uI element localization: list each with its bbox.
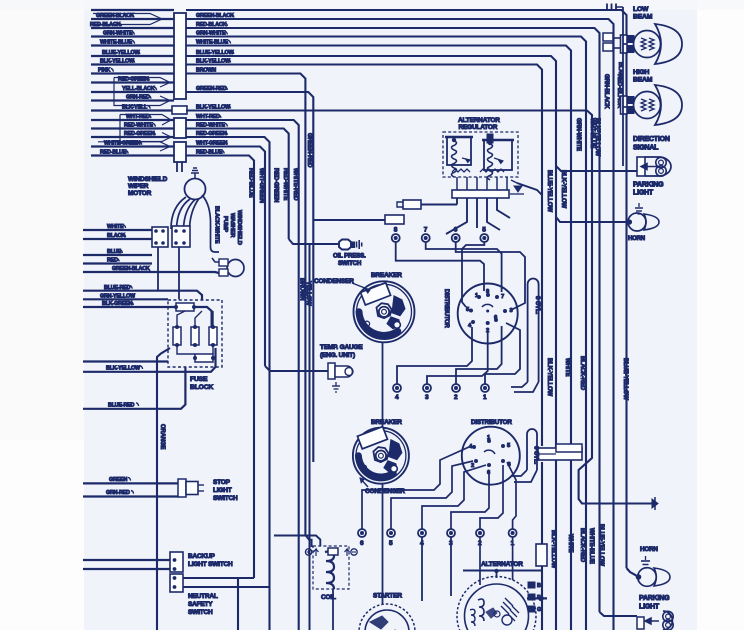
svg-text:3: 3 <box>425 394 429 401</box>
svg-text:RED-GREEN: RED-GREEN <box>124 131 155 137</box>
svg-text:HIGH: HIGH <box>633 69 649 76</box>
svg-text:CONDENSER: CONDENSER <box>365 488 405 495</box>
svg-text:HORN: HORN <box>628 236 645 242</box>
svg-text:RED-WHITE: RED-WHITE <box>282 168 288 200</box>
svg-text:6: 6 <box>454 227 458 234</box>
svg-text:BLOCK: BLOCK <box>190 384 213 391</box>
svg-text:BLK-YELLOW: BLK-YELLOW <box>550 530 556 569</box>
svg-text:PARKING: PARKING <box>633 182 664 189</box>
svg-text:7: 7 <box>501 294 504 300</box>
svg-text:WHITE: WHITE <box>107 224 124 230</box>
svg-text:WHITE-BLUE: WHITE-BLUE <box>100 40 132 46</box>
svg-text:G: G <box>537 607 541 613</box>
svg-text:BLACK-RED: BLACK-RED <box>579 528 585 563</box>
svg-text:YELL-BLACK: YELL-BLACK <box>122 86 155 92</box>
svg-text:1: 1 <box>483 394 487 401</box>
svg-text:NEUTRAL: NEUTRAL <box>188 593 218 600</box>
svg-text:LOW: LOW <box>633 6 649 13</box>
svg-text:BLK-YELLOW: BLK-YELLOW <box>100 59 135 65</box>
svg-text:BREAKER: BREAKER <box>371 419 402 426</box>
svg-text:LIGHT: LIGHT <box>213 487 232 494</box>
svg-text:8 CYL.: 8 CYL. <box>534 296 541 315</box>
svg-text:BLACK-RED: BLACK-RED <box>579 356 585 391</box>
svg-text:BLUE-YELLOW: BLUE-YELLOW <box>598 524 604 566</box>
svg-text:BACKUP: BACKUP <box>188 553 215 560</box>
svg-text:BLK-YELLOW: BLK-YELLOW <box>106 365 141 371</box>
svg-text:BLACK-WHITE: BLACK-WHITE <box>214 206 220 244</box>
svg-text:MOTOR: MOTOR <box>128 190 152 197</box>
svg-text:BLK-YELLOW: BLK-YELLOW <box>560 170 566 209</box>
svg-text:(ENG. UNIT): (ENG. UNIT) <box>320 352 355 359</box>
svg-text:ORANGE: ORANGE <box>159 424 165 449</box>
svg-text:WASHER: WASHER <box>229 213 235 238</box>
svg-text:RED-GREEN: RED-GREEN <box>273 168 279 202</box>
svg-text:BLUE-YELLOW: BLUE-YELLOW <box>102 50 140 56</box>
svg-text:OIL PRESS.: OIL PRESS. <box>333 253 366 260</box>
svg-text:WHT-GREEN: WHT-GREEN <box>258 168 264 203</box>
svg-text:7: 7 <box>424 227 428 234</box>
svg-text:YELLOW: YELLOW <box>305 281 311 306</box>
svg-text:GRN-RED: GRN-RED <box>126 95 150 101</box>
svg-text:BREAKER: BREAKER <box>371 272 402 279</box>
svg-text:SAFETY: SAFETY <box>188 601 213 608</box>
svg-text:SWITCH: SWITCH <box>338 260 362 267</box>
svg-text:6 CYL.: 6 CYL. <box>533 446 540 465</box>
svg-text:STARTER: STARTER <box>373 593 402 600</box>
svg-text:BLK-GREEN: BLK-GREEN <box>102 301 133 307</box>
svg-text:BLUE-RED: BLUE-RED <box>104 285 131 291</box>
svg-text:BLACK: BLACK <box>617 62 623 81</box>
svg-text:5: 5 <box>389 540 393 547</box>
svg-text:GRN-BLACK: GRN-BLACK <box>603 74 609 109</box>
svg-text:WINDSHIELD: WINDSHIELD <box>236 210 242 245</box>
svg-text:SWITCH: SWITCH <box>188 609 213 616</box>
svg-text:GREEN-RED: GREEN-RED <box>306 133 312 168</box>
svg-text:B: B <box>537 583 541 589</box>
svg-text:FUSE: FUSE <box>190 376 208 383</box>
svg-text:GRN-YELLOW: GRN-YELLOW <box>100 293 136 299</box>
svg-text:ALTERNATOR: ALTERNATOR <box>458 117 500 124</box>
svg-text:BLUE-YELLOW: BLUE-YELLOW <box>546 170 552 212</box>
svg-text:BLUE-RED: BLUE-RED <box>108 402 135 408</box>
svg-text:BLK-YELLOW: BLK-YELLOW <box>546 358 552 397</box>
svg-text:PARKING: PARKING <box>639 595 670 602</box>
svg-text:STOP: STOP <box>213 479 231 486</box>
svg-text:8: 8 <box>394 227 398 234</box>
svg-text:WHITE-RED: WHITE-RED <box>292 168 298 201</box>
svg-text:RED-BLUE: RED-BLUE <box>248 168 254 198</box>
svg-text:BEAM: BEAM <box>633 77 653 84</box>
svg-text:ALTERNATOR: ALTERNATOR <box>481 561 523 568</box>
svg-text:WINDSHIELD: WINDSHIELD <box>128 176 168 183</box>
svg-text:GRN-RED: GRN-RED <box>106 490 130 496</box>
svg-text:SIGNAL: SIGNAL <box>633 145 659 152</box>
svg-text:BLUE: BLUE <box>107 249 121 255</box>
svg-text:LIGHT: LIGHT <box>633 190 654 197</box>
svg-text:WHITE: WHITE <box>567 534 573 553</box>
svg-text:DIRECTION: DIRECTION <box>633 136 670 143</box>
svg-text:BLK-YELLOW: BLK-YELLOW <box>594 118 600 157</box>
svg-text:DISTRIBUTOR: DISTRIBUTOR <box>443 289 449 329</box>
svg-text:4: 4 <box>395 394 399 401</box>
svg-text:GREEN: GREEN <box>109 477 127 483</box>
svg-text:LIGHT: LIGHT <box>639 604 660 611</box>
svg-text:RED: RED <box>107 258 118 264</box>
svg-text:HORN: HORN <box>640 546 658 553</box>
svg-text:GRN-WHITE: GRN-WHITE <box>103 31 133 37</box>
svg-text:BEAM: BEAM <box>633 14 653 21</box>
svg-text:WIPER: WIPER <box>128 183 149 190</box>
svg-text:BLUE-YELLOW: BLUE-YELLOW <box>622 358 628 400</box>
svg-text:PINK: PINK <box>98 68 110 74</box>
svg-text:CONDENSER: CONDENSER <box>314 278 354 285</box>
svg-text:2: 2 <box>454 394 458 401</box>
svg-text:6: 6 <box>360 540 364 547</box>
svg-text:BLACK: BLACK <box>107 233 125 239</box>
svg-text:WHITE: WHITE <box>564 358 570 377</box>
svg-text:WHITE-BLUE: WHITE-BLUE <box>588 528 594 564</box>
svg-text:TEMP. GAUGE: TEMP. GAUGE <box>320 344 363 351</box>
svg-text:REGULATOR: REGULATOR <box>459 124 498 131</box>
svg-text:LIGHT SWITCH: LIGHT SWITCH <box>188 561 233 568</box>
svg-text:5: 5 <box>482 227 486 234</box>
svg-text:RED-BLUE: RED-BLUE <box>100 150 127 156</box>
svg-text:PUMP: PUMP <box>222 216 228 232</box>
svg-text:RED-WHITE: RED-WHITE <box>124 123 153 129</box>
svg-text:SWITCH: SWITCH <box>213 495 238 502</box>
svg-text:GRN-WHITE: GRN-WHITE <box>575 118 581 151</box>
svg-text:DISTRIBUTOR: DISTRIBUTOR <box>471 419 512 426</box>
svg-text:BROWN: BROWN <box>299 278 305 300</box>
